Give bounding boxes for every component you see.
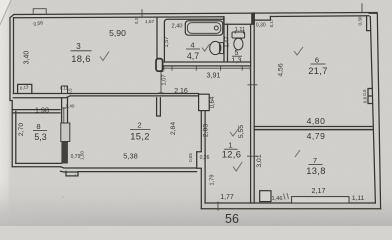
wall room8 bottom bbox=[12, 166, 60, 168]
room 3 label bbox=[71, 42, 90, 64]
wall inner top right bbox=[270, 15, 369, 18]
wall inner top left bbox=[14, 16, 224, 19]
tick 1,57 top bbox=[141, 9, 143, 17]
wall fill dark room8 stub bbox=[61, 142, 68, 164]
wall bottom outer bbox=[201, 208, 380, 210]
wall recess over toilet bbox=[224, 13, 254, 24]
tick bottom wall x218 bbox=[217, 202, 219, 211]
vent stack room3 bbox=[62, 86, 68, 94]
wall room3 bottom / room2 top outer bbox=[13, 93, 198, 95]
wall right top stub bbox=[367, 17, 370, 31]
wall right inner bbox=[370, 17, 375, 203]
wall outer top bbox=[14, 13, 377, 15]
wall right outer bbox=[369, 13, 381, 209]
wall room3/bath divider bbox=[156, 18, 158, 59]
dimension line corridor 3,91 bbox=[164, 66, 250, 71]
vent box room7 bottom bbox=[260, 191, 271, 202]
dimension ticks bbox=[33, 3, 362, 210]
wall room8 top bbox=[12, 109, 60, 111]
wall rooms6/7 divider bbox=[254, 126, 372, 128]
wall 0,30 segment bbox=[253, 17, 270, 21]
wall toilet right / rooms 6-7 left bbox=[250, 24, 252, 203]
dimension line door 1,07 bbox=[159, 72, 164, 93]
page corner diagonal top-left bbox=[0, 0, 11, 27]
washbasin bbox=[210, 41, 224, 54]
wall bath/toilet divider bbox=[223, 17, 225, 62]
wall room8 left inner bbox=[15, 111, 17, 163]
door leaf room8 bbox=[61, 123, 70, 142]
tick top-right 0,30 bbox=[361, 3, 363, 13]
wall bath+toilet bottom bbox=[164, 61, 250, 63]
wall left outer bbox=[10, 15, 14, 167]
wall hall left with jog bbox=[197, 111, 202, 209]
wall stub below room2 door bbox=[157, 98, 161, 116]
ledge room7 bottom bbox=[292, 197, 349, 203]
tick bracket 0,56 top-left bbox=[33, 9, 46, 14]
tick hall right wall y84.8 bbox=[248, 84, 258, 86]
tick toilet 1,10 bbox=[235, 31, 243, 34]
bathtub bbox=[185, 21, 223, 35]
page left edge bbox=[0, 0, 10, 226]
toilet bbox=[232, 32, 245, 50]
tick hall right wall y156 bbox=[247, 155, 258, 157]
bottom shadow bbox=[0, 176, 392, 226]
wall bottom inner bbox=[205, 202, 375, 204]
door pier room3 bbox=[156, 59, 163, 72]
wall bath inner left+top bbox=[164, 19, 224, 62]
shaft box 0,64 bbox=[199, 94, 210, 110]
wall corner fill above room6 bbox=[251, 13, 255, 24]
wall left inner bbox=[13, 18, 15, 94]
wall room2 bottom bbox=[61, 167, 197, 168]
dimension line room8 door bbox=[62, 108, 67, 123]
wall room8/room2 divider stub bbox=[61, 98, 63, 123]
checkmarks bbox=[100, 44, 303, 199]
wall right jog bbox=[368, 89, 372, 104]
wall step room3 corner bbox=[18, 84, 32, 93]
